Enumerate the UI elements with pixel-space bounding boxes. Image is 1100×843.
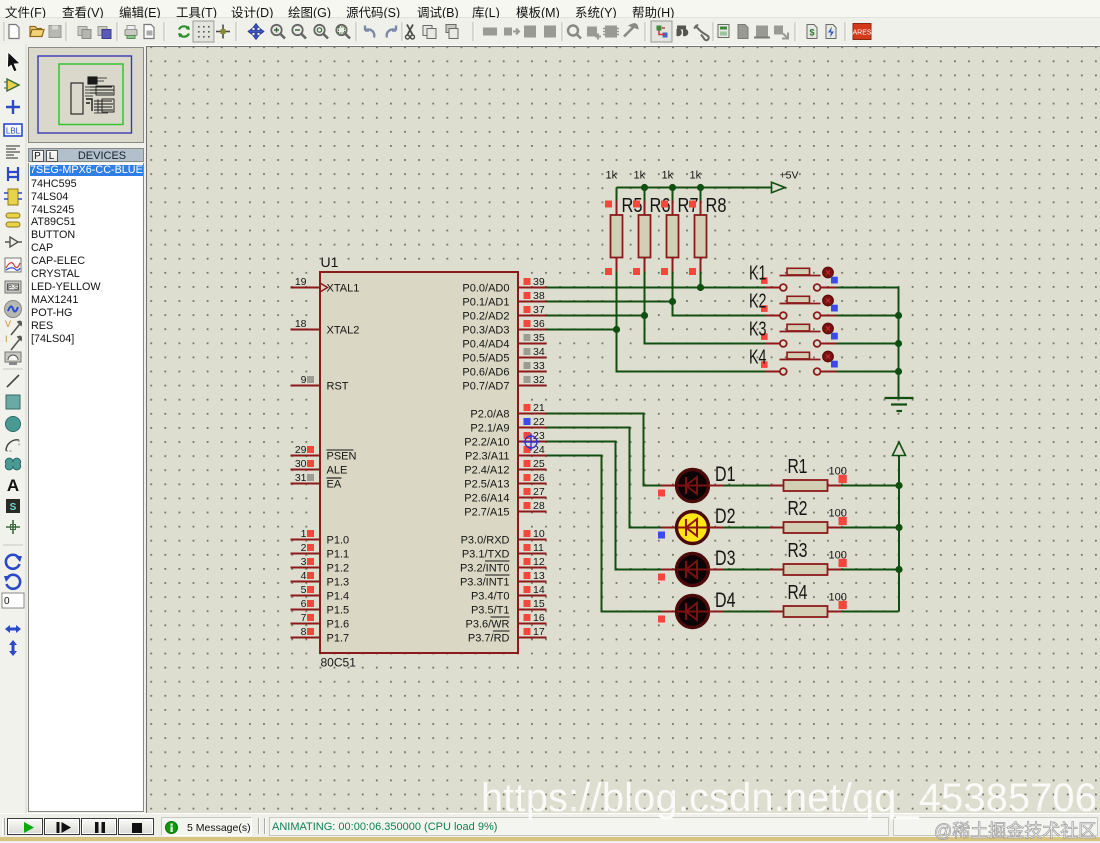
svg-text:34: 34 — [533, 346, 545, 358]
svg-text:P3.1/TXD: P3.1/TXD — [461, 548, 509, 560]
svg-text:27: 27 — [533, 486, 545, 498]
svg-text:P0.5/AD5: P0.5/AD5 — [462, 352, 509, 364]
svg-text:10: 10 — [533, 528, 545, 540]
svg-text:P2.1/A9: P2.1/A9 — [470, 422, 509, 434]
svg-text:D4: D4 — [715, 589, 736, 612]
svg-text:9: 9 — [300, 374, 306, 386]
svg-text:P0.7/AD7: P0.7/AD7 — [462, 380, 509, 392]
svg-text:23: 23 — [533, 430, 545, 442]
svg-text:18: 18 — [294, 318, 306, 330]
svg-text:EA: EA — [326, 478, 341, 490]
svg-text:30: 30 — [294, 458, 306, 470]
svg-text:3: 3 — [300, 556, 306, 568]
svg-text:0: 0 — [4, 596, 10, 607]
svg-text:19: 19 — [294, 276, 306, 288]
svg-text:P2.3/A11: P2.3/A11 — [465, 450, 509, 462]
svg-text:8: 8 — [300, 626, 306, 638]
svg-text:P2.2/A10: P2.2/A10 — [464, 436, 509, 448]
svg-text:P0.0/AD0: P0.0/AD0 — [462, 282, 509, 294]
svg-text:36: 36 — [533, 318, 545, 330]
svg-text:R2: R2 — [787, 497, 807, 520]
svg-text:11: 11 — [533, 542, 544, 554]
svg-text:P1.2: P1.2 — [326, 562, 349, 574]
svg-text:P2.4/A12: P2.4/A12 — [464, 464, 509, 476]
svg-text:P1.5: P1.5 — [326, 604, 349, 616]
svg-text:35: 35 — [533, 332, 545, 344]
svg-text:A: A — [7, 476, 19, 495]
svg-text:I: I — [5, 334, 8, 344]
svg-text:P1.0: P1.0 — [326, 534, 349, 546]
svg-text:P1.6: P1.6 — [326, 618, 349, 630]
svg-text:31: 31 — [294, 472, 306, 484]
svg-text:1k: 1k — [633, 169, 645, 181]
svg-text:5: 5 — [300, 584, 306, 596]
svg-text:K2: K2 — [749, 289, 767, 312]
svg-text:1k: 1k — [661, 169, 673, 181]
svg-text:P2.7/A15: P2.7/A15 — [464, 506, 509, 518]
svg-text:P1.3: P1.3 — [326, 576, 349, 588]
svg-text:P0.4/AD4: P0.4/AD4 — [462, 338, 509, 350]
svg-text:1k: 1k — [605, 169, 617, 181]
svg-text:7: 7 — [300, 612, 306, 624]
svg-text:P3.7/RD: P3.7/RD — [467, 632, 509, 644]
svg-text:21: 21 — [533, 402, 545, 414]
svg-text:RST: RST — [326, 380, 348, 392]
svg-text:D3: D3 — [715, 547, 736, 570]
svg-text:XTAL2: XTAL2 — [326, 324, 359, 336]
svg-text:P0.2/AD2: P0.2/AD2 — [462, 310, 509, 322]
svg-text:14: 14 — [533, 584, 545, 596]
svg-text:P3.6/WR: P3.6/WR — [465, 618, 509, 630]
svg-text:ALE: ALE — [326, 464, 347, 476]
svg-text:R4: R4 — [787, 581, 807, 604]
svg-text:P0.1/AD1: P0.1/AD1 — [462, 296, 509, 308]
svg-text:K1: K1 — [749, 261, 767, 284]
svg-text:P1.4: P1.4 — [326, 590, 349, 602]
svg-text:S: S — [10, 502, 17, 513]
svg-text:D1: D1 — [715, 463, 736, 486]
svg-text:15: 15 — [533, 598, 545, 610]
svg-text:22: 22 — [533, 416, 545, 428]
svg-text:12: 12 — [533, 556, 545, 568]
svg-text:LBL: LBL — [6, 127, 21, 136]
svg-text:P0.6/AD6: P0.6/AD6 — [462, 366, 509, 378]
svg-text:38: 38 — [533, 290, 545, 302]
svg-text:16: 16 — [533, 612, 545, 624]
svg-text:26: 26 — [533, 472, 545, 484]
svg-text:P1.1: P1.1 — [326, 548, 349, 560]
svg-text:6: 6 — [300, 598, 306, 610]
svg-text:V: V — [5, 319, 11, 329]
svg-text:13: 13 — [533, 570, 545, 582]
svg-text:P3.2/INT0: P3.2/INT0 — [459, 562, 509, 574]
svg-text:P2.5/A13: P2.5/A13 — [464, 478, 509, 490]
svg-text:P2.0/A8: P2.0/A8 — [470, 408, 509, 420]
svg-text:17: 17 — [533, 626, 545, 638]
svg-text:R3: R3 — [787, 539, 807, 562]
svg-text:P1.7: P1.7 — [326, 632, 349, 644]
svg-text:37: 37 — [533, 304, 545, 316]
svg-text:XTAL1: XTAL1 — [326, 282, 359, 294]
svg-text:ARES: ARES — [852, 30, 871, 37]
svg-text:$: $ — [809, 28, 814, 38]
svg-text:1k: 1k — [689, 169, 701, 181]
svg-text:K4: K4 — [749, 345, 767, 368]
svg-text:K3: K3 — [749, 317, 767, 340]
svg-text:2: 2 — [300, 542, 306, 554]
svg-text:80C51: 80C51 — [320, 655, 356, 669]
svg-text:R8: R8 — [705, 194, 726, 217]
svg-text:+5V: +5V — [779, 169, 798, 181]
svg-text:P3.4/T0: P3.4/T0 — [470, 590, 509, 602]
svg-text:4: 4 — [300, 570, 306, 582]
svg-text:29: 29 — [294, 444, 306, 456]
svg-text:25: 25 — [533, 458, 545, 470]
svg-text:33: 33 — [533, 360, 545, 372]
svg-text:PSEN: PSEN — [326, 450, 356, 462]
svg-text:P3.3/INT1: P3.3/INT1 — [459, 576, 509, 588]
svg-text:U1: U1 — [320, 254, 338, 270]
svg-text:P3.0/RXD: P3.0/RXD — [460, 534, 509, 546]
svg-text:P2.6/A14: P2.6/A14 — [464, 492, 509, 504]
svg-text:P-S: P-S — [8, 286, 18, 292]
svg-text:D2: D2 — [715, 505, 736, 528]
svg-text:P3.5/T1: P3.5/T1 — [470, 604, 509, 616]
svg-text:28: 28 — [533, 500, 545, 512]
svg-text:32: 32 — [533, 374, 545, 386]
svg-text:1: 1 — [300, 528, 306, 540]
svg-text:39: 39 — [533, 276, 545, 288]
svg-text:R1: R1 — [787, 455, 807, 478]
svg-text:P0.3/AD3: P0.3/AD3 — [462, 324, 509, 336]
